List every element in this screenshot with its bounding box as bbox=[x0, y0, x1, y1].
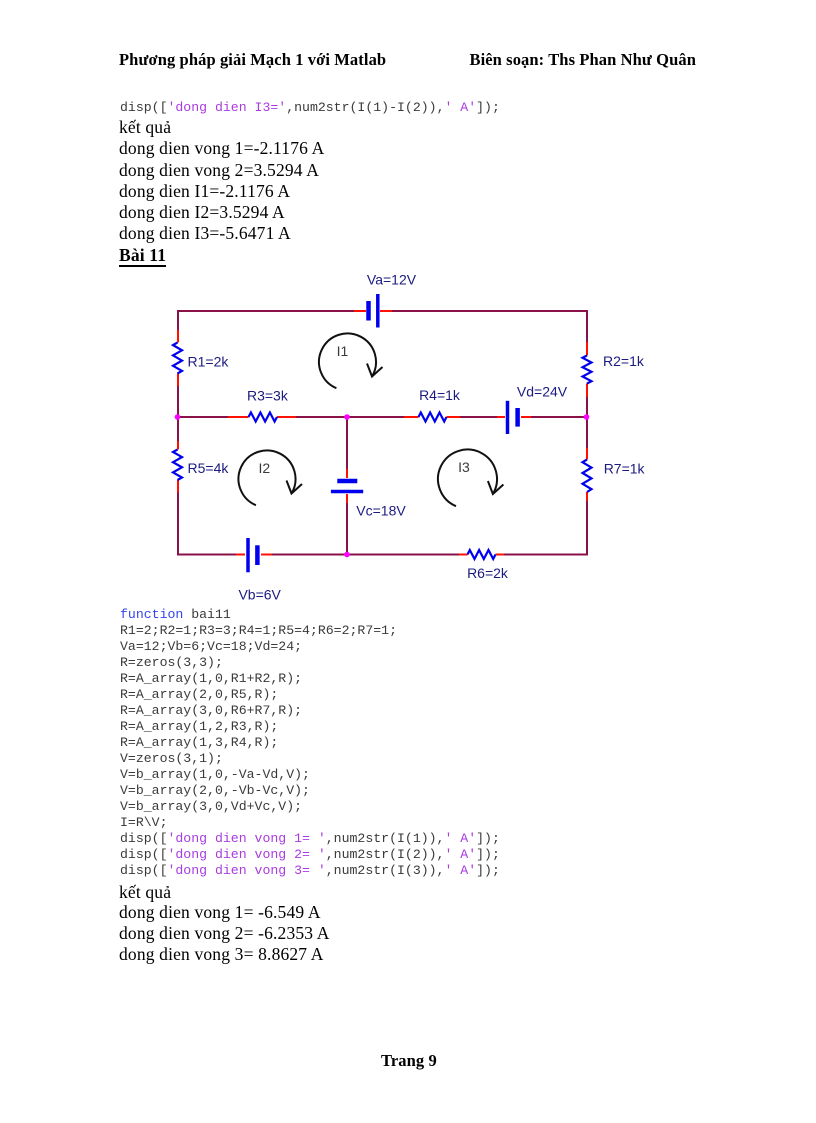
wire top-right segment bbox=[392, 310, 588, 312]
results block top bbox=[119, 117, 324, 245]
lead Vd red bbox=[497, 416, 531, 418]
svg-text:R2=1k: R2=1k bbox=[603, 353, 645, 369]
resistor R2 bbox=[583, 356, 592, 384]
wire right lower bbox=[586, 416, 588, 556]
battery Va bbox=[369, 294, 378, 328]
label I2 bbox=[259, 460, 271, 476]
label R7=1k bbox=[604, 461, 646, 477]
lead R4 red bbox=[404, 416, 460, 418]
label R5=4k bbox=[188, 460, 230, 476]
lead R6 red bbox=[459, 554, 504, 556]
svg-text:I3: I3 bbox=[458, 459, 470, 475]
footer bbox=[381, 1051, 437, 1071]
wire right upper bbox=[586, 310, 588, 418]
svg-text:Va=12V: Va=12V bbox=[367, 272, 417, 288]
svg-text:R7=1k: R7=1k bbox=[604, 461, 646, 477]
svg-text:I2: I2 bbox=[259, 460, 271, 476]
svg-text:Vb=6V: Vb=6V bbox=[238, 586, 281, 602]
code line top bbox=[120, 100, 500, 116]
svg-text:I1: I1 bbox=[337, 343, 349, 359]
lead Vb red bbox=[236, 554, 272, 556]
svg-text:R1=2k: R1=2k bbox=[188, 354, 230, 370]
node center-bottom bbox=[344, 552, 350, 558]
results block bottom bbox=[119, 882, 330, 966]
label R6=2k bbox=[467, 565, 509, 581]
battery Vb bbox=[248, 538, 257, 572]
resistor R3 bbox=[249, 413, 278, 422]
lead R5 red bbox=[177, 441, 179, 493]
lead R3 red bbox=[228, 416, 296, 418]
resistor R4 bbox=[419, 413, 447, 422]
wire top-left segment bbox=[177, 310, 354, 312]
wire left upper bbox=[177, 310, 179, 418]
header right bbox=[469, 50, 696, 70]
lead R1 red bbox=[177, 330, 179, 386]
svg-text:R5=4k: R5=4k bbox=[188, 460, 230, 476]
mesh arrow I1 bbox=[319, 333, 383, 388]
header left bbox=[119, 50, 386, 70]
code block bbox=[120, 607, 500, 879]
node center-middle bbox=[344, 414, 350, 420]
label R4=1k bbox=[419, 387, 461, 403]
svg-text:R3=3k: R3=3k bbox=[247, 388, 289, 404]
label Vc=18V bbox=[356, 503, 406, 519]
label Vb=6V bbox=[238, 586, 281, 602]
label Va=12V bbox=[367, 272, 417, 288]
Bai 11 heading bbox=[119, 245, 166, 266]
circuit schematic Bai 11 bbox=[140, 260, 660, 610]
battery Vc bbox=[331, 481, 363, 492]
lead Vc red bbox=[346, 469, 348, 503]
wire middle horizontal bbox=[177, 416, 587, 418]
resistor R1 bbox=[173, 343, 182, 374]
node left-middle bbox=[175, 414, 181, 420]
svg-text:Vc=18V: Vc=18V bbox=[356, 503, 406, 519]
label I3 bbox=[458, 459, 470, 475]
svg-text:R4=1k: R4=1k bbox=[419, 387, 461, 403]
mesh arrow I2 bbox=[238, 450, 302, 505]
label I1 bbox=[337, 343, 349, 359]
mesh arrow I3 bbox=[438, 450, 503, 507]
label R1=2k bbox=[188, 354, 230, 370]
label R3=3k bbox=[247, 388, 289, 404]
resistor R6 bbox=[468, 550, 496, 559]
node right-middle bbox=[584, 414, 590, 420]
wire bottom bbox=[177, 554, 587, 556]
wire middle vertical bbox=[346, 416, 348, 555]
battery Vd bbox=[508, 401, 518, 434]
label R2=1k bbox=[603, 353, 645, 369]
wire left lower bbox=[177, 416, 179, 556]
svg-text:R6=2k: R6=2k bbox=[467, 565, 509, 581]
lead Va red bbox=[354, 310, 392, 312]
label Vd=24V bbox=[517, 384, 568, 400]
lead R2 red bbox=[586, 342, 588, 397]
resistor R7 bbox=[583, 460, 592, 493]
resistor R5 bbox=[173, 450, 182, 481]
svg-text:Vd=24V: Vd=24V bbox=[517, 384, 568, 400]
lead R7 red bbox=[586, 448, 588, 501]
